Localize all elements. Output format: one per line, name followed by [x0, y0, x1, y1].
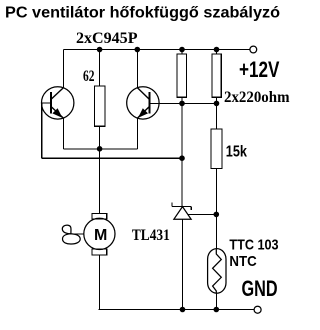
svg-text:TL431: TL431: [132, 227, 170, 244]
svg-text:M: M: [94, 227, 107, 244]
svg-text:+12V: +12V: [239, 57, 280, 82]
svg-text:62: 62: [83, 68, 95, 85]
svg-text:TTC 103: TTC 103: [229, 236, 278, 253]
svg-text:GND: GND: [242, 276, 278, 301]
svg-text:2x220ohm: 2x220ohm: [224, 89, 290, 106]
svg-text:NTC: NTC: [229, 253, 256, 270]
svg-text:15k: 15k: [226, 144, 247, 161]
svg-text:2xC945P: 2xC945P: [76, 30, 138, 47]
svg-text:PC ventilátor hőfokfüggő szabá: PC ventilátor hőfokfüggő szabályzó: [5, 4, 280, 21]
